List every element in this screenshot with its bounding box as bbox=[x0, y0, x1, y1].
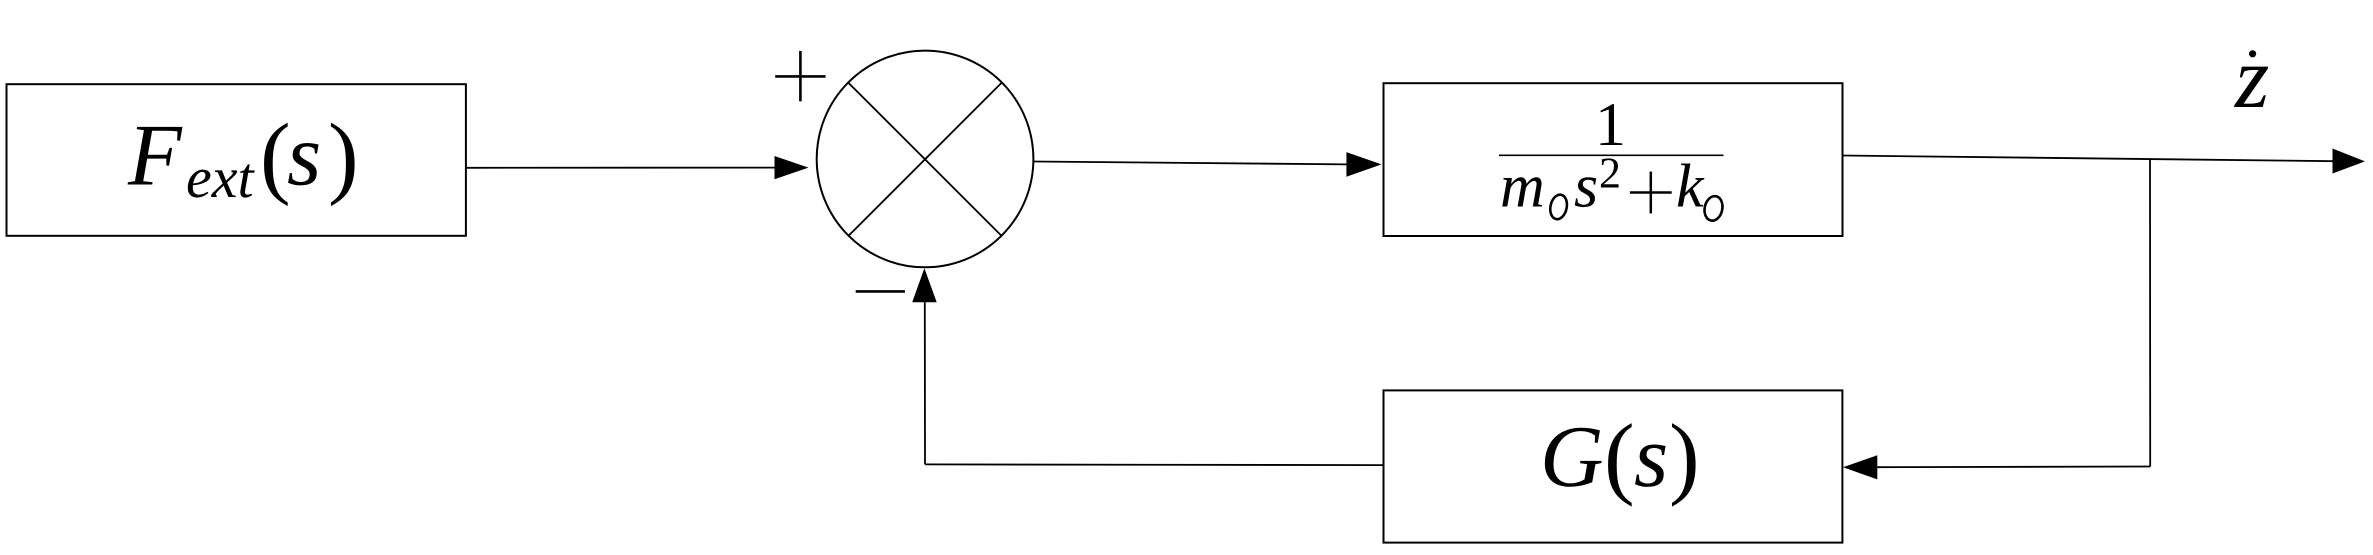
denominator + bbox=[1630, 172, 1672, 214]
plant box 1/(m_o s^2 + k_o) bbox=[1384, 83, 1843, 236]
svg-text:(: ( bbox=[1604, 405, 1635, 507]
svg-text:s: s bbox=[287, 108, 321, 205]
wire from F_ext(s) to summing junction bbox=[466, 167, 776, 169]
svg-text:F: F bbox=[127, 108, 183, 205]
svg-text:s: s bbox=[1634, 409, 1668, 506]
output arrowhead bbox=[2333, 149, 2366, 174]
summing junction circle bbox=[817, 51, 1034, 268]
svg-text:z: z bbox=[2234, 30, 2269, 127]
svg-text:): ) bbox=[328, 105, 359, 207]
feedback wire left segment from G(s) bbox=[925, 463, 1383, 466]
arrowhead into G(s) box bbox=[1843, 455, 1877, 479]
branch node vertical wire down bbox=[2149, 159, 2151, 466]
feedback wire vertical up to summing junction bbox=[924, 301, 926, 464]
svg-text:k: k bbox=[1676, 153, 1705, 221]
arrowhead up into summing junction bbox=[912, 268, 937, 302]
plus sign bbox=[775, 51, 825, 101]
arrowhead into plant box bbox=[1346, 152, 1381, 177]
output wire from plant box to output arrow bbox=[1843, 156, 2335, 162]
label F_ext(s) bbox=[127, 105, 359, 211]
svg-text:s: s bbox=[1574, 153, 1598, 221]
svg-text:): ) bbox=[1669, 405, 1700, 507]
block F_ext(s) box bbox=[7, 84, 466, 236]
svg-text:2: 2 bbox=[1599, 149, 1621, 198]
svg-text:G: G bbox=[1540, 409, 1604, 506]
minus sign bbox=[856, 290, 905, 293]
feedback wire right segment into G(s) bbox=[1876, 466, 2150, 469]
summing junction diagonal \ bbox=[848, 83, 1001, 236]
svg-text:ext: ext bbox=[186, 145, 255, 210]
fraction bar bbox=[1499, 154, 1724, 156]
wire from summing junction to plant box bbox=[1033, 162, 1348, 165]
svg-text:m: m bbox=[1500, 153, 1545, 221]
arrowhead into summing junction bbox=[775, 156, 809, 179]
output label z-dot bbox=[2234, 30, 2269, 127]
summing junction diagonal / bbox=[848, 83, 1001, 236]
feedback block G(s) box bbox=[1384, 390, 1843, 542]
